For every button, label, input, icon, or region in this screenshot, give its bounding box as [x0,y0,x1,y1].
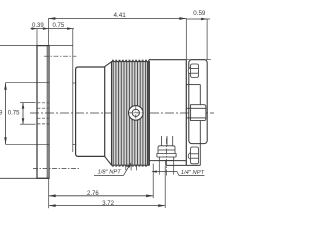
extension line x=72.6 (cup rim) long [72,29,74,152]
ribbed section [112,61,150,166]
svg-text:0.75: 0.75 [8,111,20,117]
bottom screw [188,147,198,164]
extension horizontal y=45.6 to left edge [0,45,73,47]
ref line y=145.3 [6,143,77,145]
bottom stack fitting (1/4 NPT port) [157,136,177,175]
svg-text:3.72: 3.72 [102,201,114,207]
dimension 0.59 top right [186,18,210,21]
cup (bell housing) [76,67,105,156]
dimension 0.75 top [67,27,73,30]
main horizontal center line [30,112,214,114]
svg-text:0.75: 0.75 [53,23,65,29]
svg-text:4.41: 4.41 [114,12,127,19]
fin bottom castellations [112,165,149,167]
dimension 0.39 top [31,27,75,30]
cup chamfer bottom [105,156,112,165]
bottom dimension 2.76 [49,194,154,197]
mounting hole center line bottom [33,167,80,169]
mounting hole center line top [44,55,77,57]
svg-text:2.76: 2.76 [87,191,99,197]
side fitting right (on centerline) [186,105,206,121]
extension line x=48.4 (flange right, up to 4.41) [47,19,49,46]
extension line x=207.1 top [206,19,208,60]
mid cylinder + block [149,59,186,61]
square plate lines [186,84,200,86]
bottom dimension 3.72 [49,204,166,207]
knob circle [129,106,144,121]
svg-text:0.59: 0.59 [193,10,206,17]
left dimension 0.75 vertical [20,103,36,125]
extension line x=37 (flange left) [36,29,38,46]
top screw [188,64,198,77]
hidden port lines under ribs [126,165,137,171]
flange plate [37,46,49,179]
dimension 4.41 top [48,17,186,20]
fin top castellations [112,60,149,62]
cup chamfer top [105,62,112,67]
ref line y=82.7 [6,82,77,84]
left dimension (cropped label 9) vertical [4,83,7,145]
flange bottom edge extended to left [0,177,49,179]
rounded plate right [189,60,207,144]
bottom extension lines [48,178,50,208]
svg-text:0.39: 0.39 [32,23,44,29]
svg-text:1/8" NPT: 1/8" NPT [98,170,122,176]
flange hidden hole dashes [37,103,48,124]
svg-text:9: 9 [0,111,3,117]
